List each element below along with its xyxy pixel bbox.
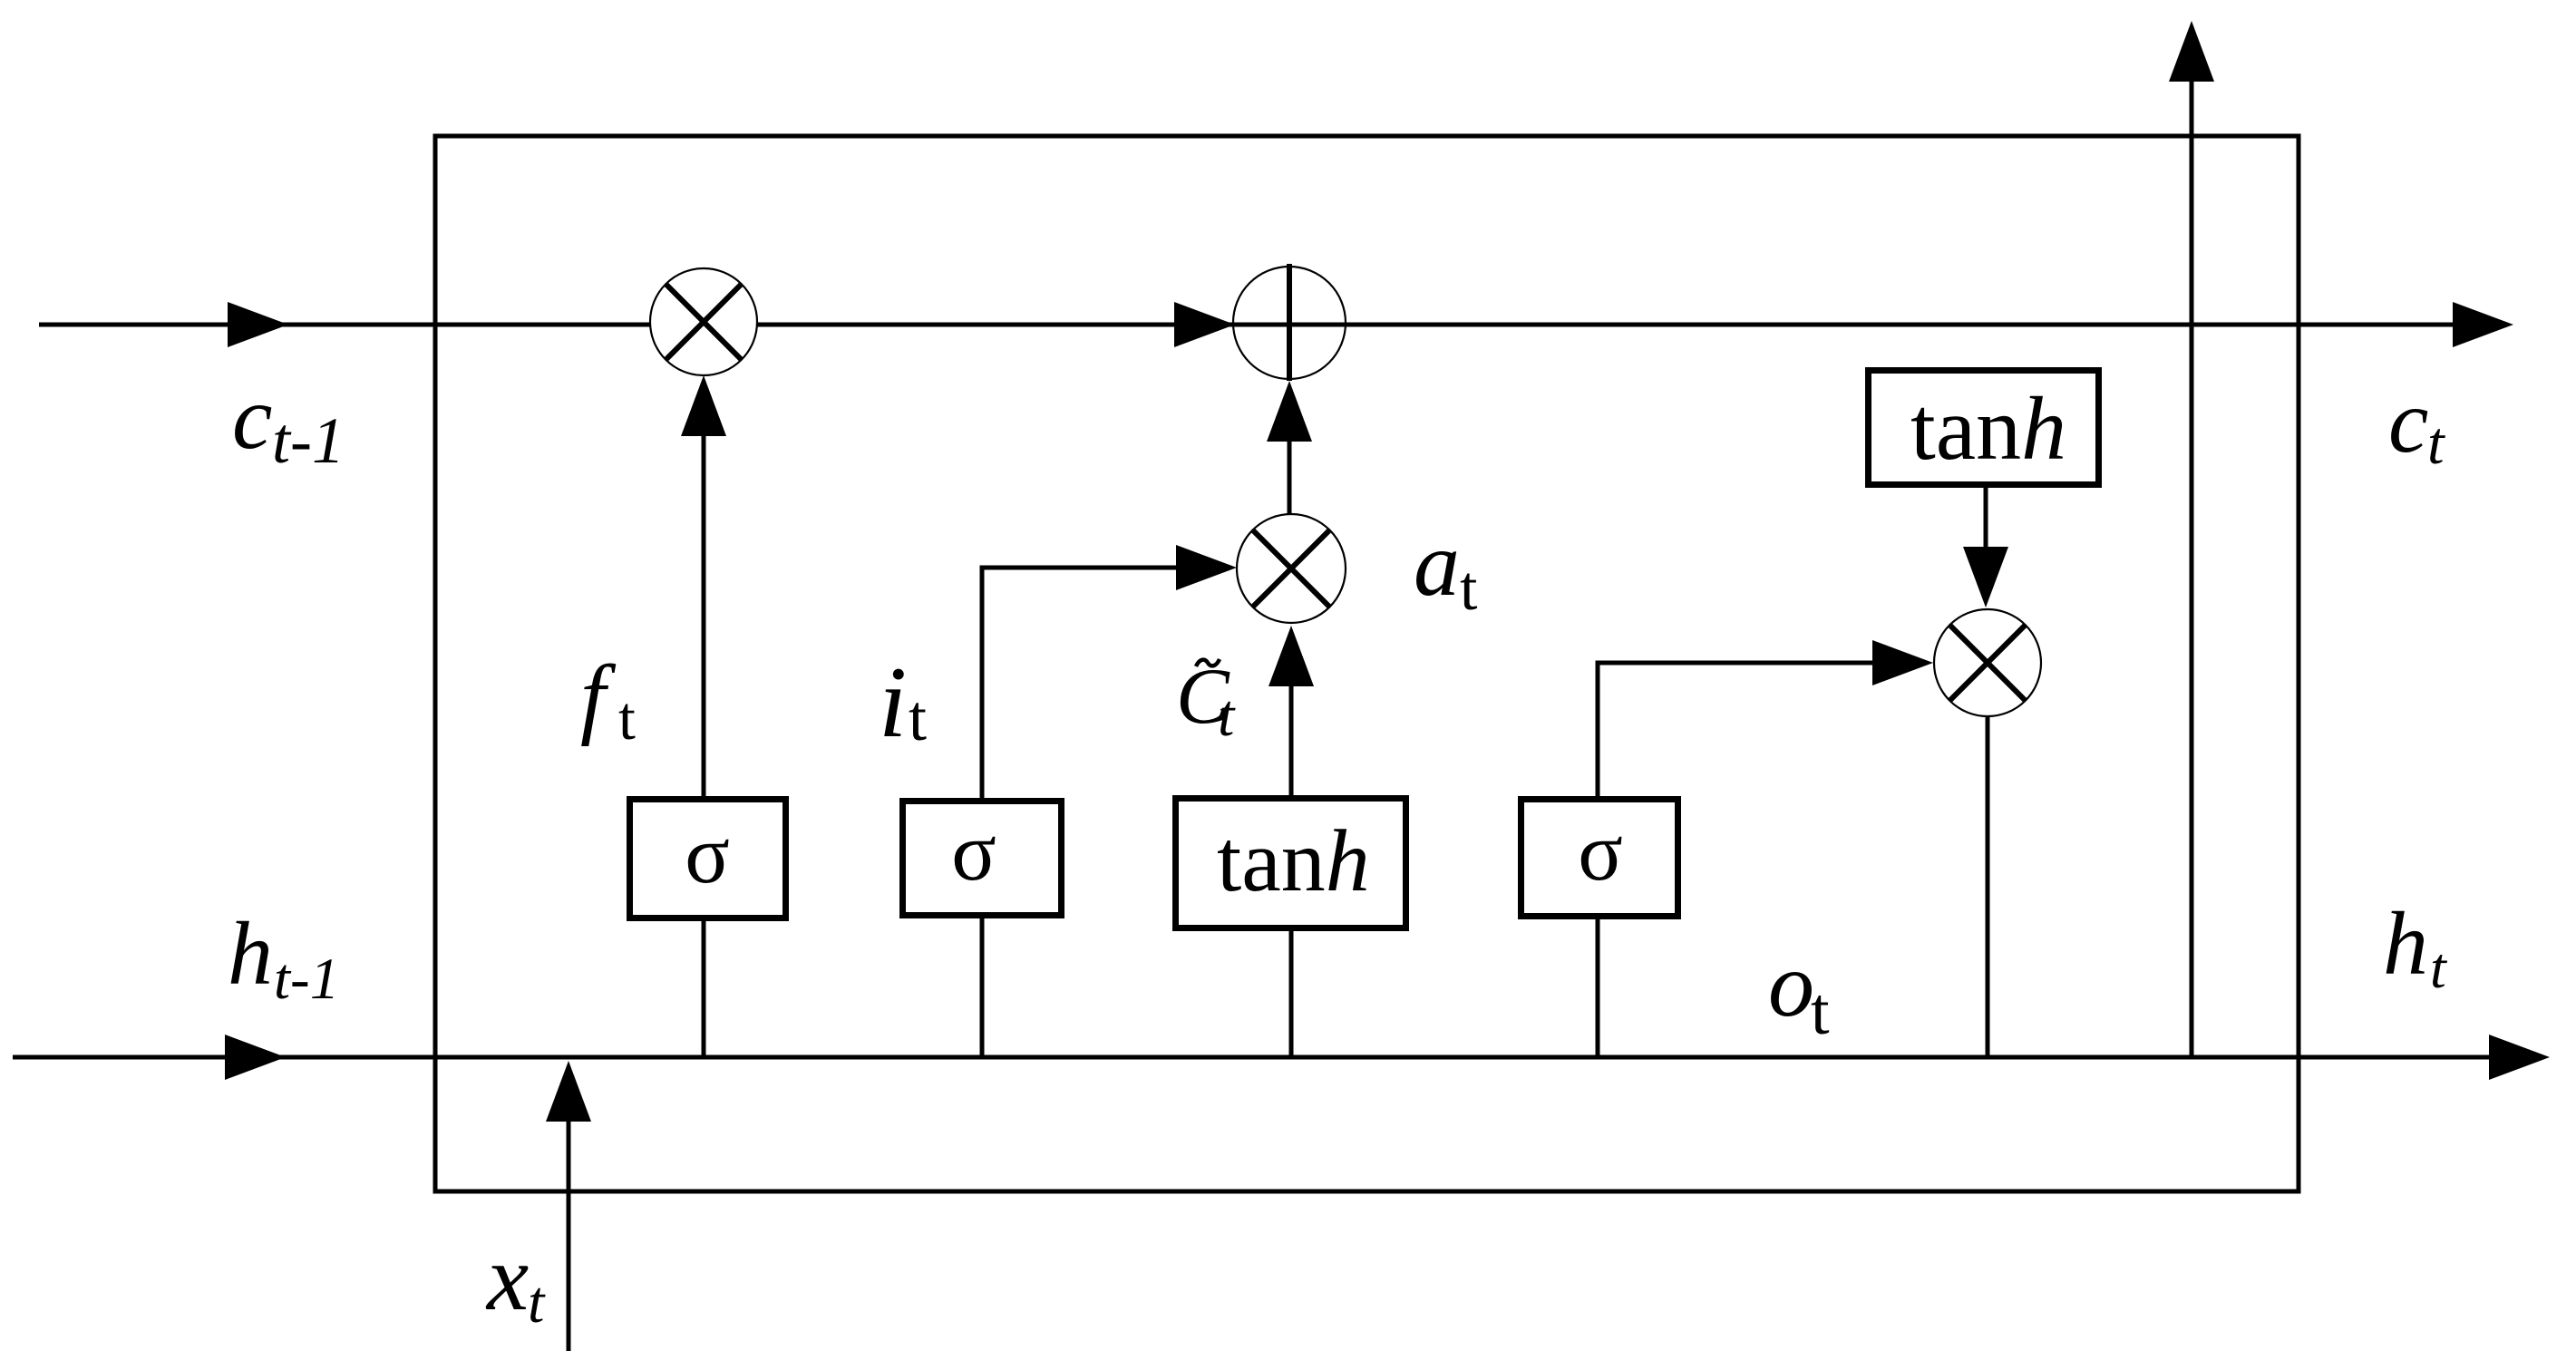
arrowhead c-line output — [2453, 302, 2513, 347]
arrowhead o into multiplier-3 — [1872, 640, 1933, 685]
arrowhead into adder from below — [1267, 381, 1312, 442]
svg-text:t: t — [528, 1269, 546, 1336]
svg-text:h: h — [2383, 893, 2428, 994]
svg-text:t: t — [909, 682, 927, 754]
svg-text:σ: σ — [685, 808, 730, 900]
svg-text:t: t — [2430, 936, 2448, 1000]
arrowhead c-line into adder — [1174, 302, 1235, 347]
arrowhead tanh-top into multiplier-3 — [1963, 547, 2008, 607]
svg-text:t: t — [2427, 410, 2445, 477]
wire i elbow — [982, 568, 1178, 798]
svg-text:t-1: t-1 — [274, 947, 339, 1012]
multiplier forget gate — [650, 268, 757, 375]
svg-text:σ: σ — [1578, 805, 1623, 898]
wire c-line left segment — [39, 323, 650, 327]
wire adder to multiplier-2 — [1288, 442, 1292, 514]
svg-text:t: t — [1811, 975, 1830, 1049]
sigma gate forget — [630, 800, 786, 918]
label Ctilde_t — [1176, 653, 1236, 749]
multiplier output — [1934, 609, 2041, 716]
wire x_t input — [567, 1122, 571, 1351]
adder — [1233, 264, 1346, 381]
wire tanh to multiplier-2 — [1289, 686, 1294, 795]
arrowhead h-line output — [2489, 1035, 2550, 1080]
arrowhead x_t into h-line — [546, 1061, 591, 1122]
label h_t — [2383, 893, 2448, 1000]
wire f vertical — [702, 436, 706, 796]
arrowhead f into multiplier — [681, 375, 726, 436]
arrowhead h-line input — [225, 1035, 286, 1080]
multiplier candidate — [1237, 514, 1346, 623]
cell body rectangle — [435, 136, 2299, 1191]
wire h_t branch up — [2190, 82, 2194, 1057]
wire multiplier-3 to h-line — [1986, 716, 1990, 1057]
wire sigma-i to h-line — [980, 918, 985, 1057]
svg-text:t: t — [618, 684, 636, 753]
label c_t — [2388, 371, 2445, 477]
label c_t-1 — [232, 367, 345, 477]
wire tanh-top down — [1984, 488, 1988, 548]
svg-text:a: a — [1414, 513, 1460, 616]
svg-text:t-1: t-1 — [272, 404, 345, 477]
wire sigma-o to h-line — [1596, 919, 1600, 1057]
svg-text:tanh: tanh — [1217, 812, 1370, 910]
label h_t-1 — [228, 903, 339, 1012]
label x_t — [485, 1226, 546, 1336]
svg-text:x: x — [485, 1226, 529, 1330]
svg-text:h: h — [228, 903, 273, 1004]
svg-text:tanh: tanh — [1910, 378, 2066, 479]
svg-text:i: i — [879, 646, 907, 759]
label a_t — [1414, 513, 1478, 624]
label i_t — [879, 646, 927, 759]
arrowhead tanh into multiplier-2 — [1269, 626, 1314, 686]
sigma gate output — [1521, 800, 1678, 917]
svg-text:t: t — [1218, 683, 1236, 749]
svg-text:σ: σ — [951, 805, 996, 898]
svg-text:c: c — [232, 367, 272, 468]
wire o elbow — [1598, 663, 1874, 796]
label f_t — [580, 646, 636, 753]
svg-text:c: c — [2388, 371, 2428, 471]
arrowhead c-line input — [228, 302, 288, 347]
svg-text:t: t — [1460, 554, 1478, 624]
arrowhead h_t up output — [2169, 21, 2214, 82]
sigma gate input — [903, 802, 1062, 916]
tanh gate candidate — [1176, 799, 1406, 928]
svg-text:o: o — [1768, 934, 1814, 1036]
arrowhead i into multiplier — [1176, 545, 1237, 590]
wire c-line right segment — [757, 323, 2454, 327]
label o_t — [1768, 934, 1830, 1049]
wire tanh-mid to h-line — [1289, 931, 1294, 1057]
wire sigma-f to h-line — [702, 921, 706, 1057]
tanh gate output — [1869, 371, 2099, 485]
wire h-line — [13, 1055, 2490, 1060]
